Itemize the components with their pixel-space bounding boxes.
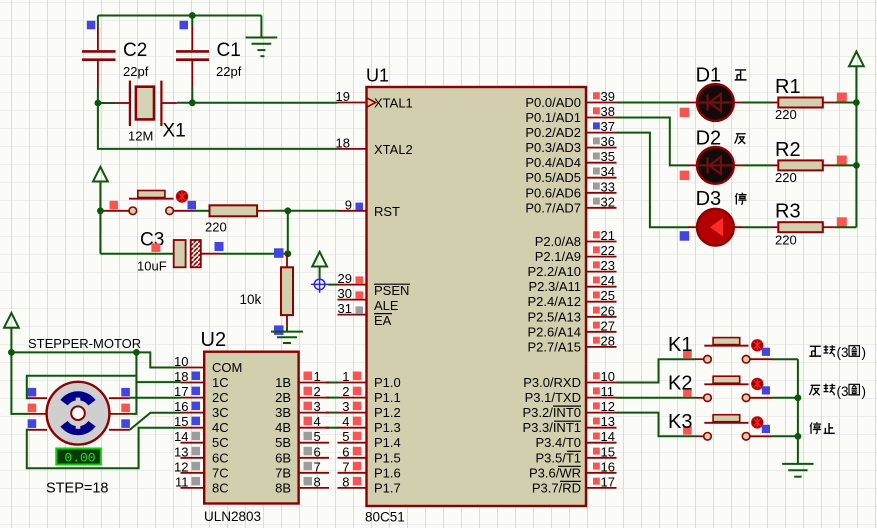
svg-text:0.00: 0.00 — [64, 450, 95, 465]
svg-text:2C: 2C — [212, 390, 229, 405]
U1 pin 35 (P0.4/AD4) — [525, 149, 616, 170]
U1 pin 13 (P3.3/INT1) — [522, 414, 616, 435]
svg-text:P2.4/A12: P2.4/A12 — [528, 294, 582, 309]
wire U2 2B to U1 P1.1 — [326, 397, 339, 399]
svg-text:ULN2803: ULN2803 — [204, 509, 261, 524]
node: junction dot R2/bus — [853, 162, 860, 169]
svg-text:P1.5: P1.5 — [374, 450, 401, 465]
wire top ground drop — [260, 16, 262, 37]
U1 pin 10 (P3.0/RXD) — [523, 369, 616, 390]
node: junction dot C1 top — [189, 12, 196, 19]
node: junction dot K2/bus — [795, 394, 802, 401]
U1 pin 34 (P0.5/AD5) — [525, 164, 616, 185]
U1 pin 14 (P3.4/T0) — [535, 429, 616, 450]
svg-text:32: 32 — [601, 194, 615, 209]
U1 pin 32 (P0.7/AD7) — [525, 194, 616, 215]
svg-text:6: 6 — [342, 444, 349, 459]
op-amp-like main MCU U1 body (80C51) — [365, 66, 586, 525]
node: junction dot crystal left — [95, 100, 102, 107]
svg-text:7: 7 — [314, 459, 321, 474]
U2 pin 6 (6B) — [275, 444, 329, 465]
wire U2 4B to U1 P1.3 — [326, 427, 339, 429]
svg-text:7B: 7B — [275, 465, 291, 480]
U1 pin 19 (XTAL1) — [336, 89, 413, 111]
wire R3 to bus corner — [835, 226, 857, 228]
svg-text:P2.2/A10: P2.2/A10 — [528, 264, 582, 279]
svg-text:XTAL1: XTAL1 — [374, 96, 413, 111]
push button K2 — [668, 373, 772, 402]
svg-text:2B: 2B — [275, 390, 291, 405]
wire R to RST pin — [271, 210, 338, 212]
wire C3 row — [100, 253, 173, 255]
svg-text:28: 28 — [601, 333, 615, 348]
svg-text:7C: 7C — [212, 465, 229, 480]
U1 pin 39 (P0.0/AD0) — [525, 89, 616, 110]
U1 pin 18 (XTAL2) — [336, 135, 413, 157]
wire vcc to left common lead — [11, 352, 28, 414]
power arrow (EA/PSEN) — [312, 252, 327, 278]
wire reset vertical to C3 — [99, 211, 101, 254]
U1 pin 7 (P1.6) — [338, 459, 401, 480]
svg-text:1C: 1C — [212, 375, 229, 390]
svg-text:P0.7/AD7: P0.7/AD7 — [525, 200, 581, 215]
svg-text:R1: R1 — [775, 76, 801, 98]
svg-text:P0.0/AD0: P0.0/AD0 — [525, 95, 581, 110]
U2 pin 7 (7B) — [275, 459, 329, 480]
U1 pin 4 (P1.3) — [338, 414, 401, 435]
svg-text:21: 21 — [601, 228, 615, 243]
U1 pin 30 (ALE) — [338, 286, 399, 313]
capacitor C1 — [176, 16, 242, 104]
svg-text:D2: D2 — [696, 128, 722, 150]
svg-text:10uF: 10uF — [137, 259, 167, 274]
node: junction dot C3 net — [284, 250, 291, 257]
capacitor C2 — [82, 16, 149, 104]
U2 pin 5 (5B) — [275, 429, 329, 450]
push button K1 — [668, 334, 772, 363]
svg-text:14: 14 — [174, 429, 188, 444]
U1 pin 16 (P3.6/WR) — [529, 459, 617, 480]
svg-text:P3.6/WR: P3.6/WR — [529, 465, 581, 480]
label D1 正 — [735, 70, 747, 80]
node: junction dot motor vcc mid — [133, 349, 140, 356]
U1 pin 6 (P1.5) — [338, 444, 401, 465]
svg-text:U1: U1 — [366, 66, 389, 86]
svg-text:P3.1/TXD: P3.1/TXD — [525, 390, 581, 405]
wire VCC bus right — [855, 103, 857, 228]
label 正转(3圈) — [809, 345, 866, 360]
svg-text:): ) — [862, 345, 867, 360]
svg-text:5: 5 — [342, 429, 349, 444]
svg-text:): ) — [862, 384, 867, 399]
svg-text:22: 22 — [601, 243, 615, 258]
svg-text:D1: D1 — [696, 65, 722, 87]
U1 pin 17 (P3.7/RD) — [532, 474, 617, 495]
svg-text:K3: K3 — [668, 411, 692, 433]
svg-text:8: 8 — [342, 474, 349, 489]
svg-text:2: 2 — [342, 384, 349, 399]
wire C3 to junction — [220, 253, 288, 255]
svg-text:ALE: ALE — [374, 298, 399, 313]
LED D2 — [680, 128, 743, 184]
svg-text:12M: 12M — [128, 129, 153, 144]
svg-text:U2: U2 — [201, 329, 227, 351]
svg-text:23: 23 — [601, 258, 615, 273]
svg-text:P1.6: P1.6 — [374, 465, 401, 480]
U1 pin 27 (P2.6/A14) — [528, 318, 617, 339]
svg-text:38: 38 — [601, 104, 615, 119]
motor speed display — [56, 449, 101, 466]
wire coil C diagonal (bottom-right lead to 3C) — [130, 413, 181, 430]
node: junction dot reset-left — [97, 207, 104, 214]
LED D3 (lit) — [680, 188, 743, 246]
power arrow (top right) — [849, 52, 864, 103]
label D3 停 — [735, 193, 746, 205]
U1 pin 2 (P1.1) — [338, 384, 401, 405]
reset push button — [110, 191, 197, 215]
svg-text:39: 39 — [601, 89, 615, 104]
U1 pin 31 (EA) — [338, 301, 393, 328]
wire coil B (top-right lead to 2C) — [130, 397, 181, 399]
svg-text:3: 3 — [314, 399, 321, 414]
U1 pin 8 (P1.7) — [338, 474, 401, 495]
U1 pin 25 (P2.4/A12) — [528, 288, 617, 309]
push button K3 — [668, 411, 772, 440]
svg-text:35: 35 — [601, 149, 615, 164]
svg-text:P1.2: P1.2 — [374, 405, 401, 420]
U2 pin 15 (4C) — [174, 414, 229, 435]
origin crosshair marker (blue) — [311, 276, 328, 293]
svg-text:3C: 3C — [212, 405, 229, 420]
wire button to R — [194, 210, 210, 212]
svg-text:R3: R3 — [775, 201, 801, 223]
wire 1C row — [136, 381, 180, 383]
svg-text:10: 10 — [601, 369, 615, 384]
svg-text:11: 11 — [601, 384, 615, 399]
svg-text:8: 8 — [314, 474, 321, 489]
resistor R1 — [772, 76, 847, 122]
svg-text:14: 14 — [601, 429, 615, 444]
U1 pin 5 (P1.4) — [338, 429, 401, 450]
svg-text:P3.3/INT1: P3.3/INT1 — [522, 420, 581, 435]
ground (K bus) — [782, 464, 813, 477]
resistor R? 220 (reset) — [205, 205, 271, 234]
svg-text:P2.1/A9: P2.1/A9 — [535, 249, 581, 264]
svg-text:3: 3 — [342, 399, 349, 414]
svg-text:1B: 1B — [275, 375, 291, 390]
U2 pin 3 (3B) — [275, 399, 329, 420]
svg-text:1: 1 — [314, 369, 321, 384]
svg-text:24: 24 — [601, 273, 615, 288]
U2 pin 11 (8C) — [175, 474, 229, 495]
svg-text:P2.0/A8: P2.0/A8 — [535, 234, 581, 249]
node: junction dot K3/bus — [795, 433, 802, 440]
U1 pin 33 (P0.6/AD6) — [525, 179, 616, 200]
U1 pin 3 (P1.2) — [338, 399, 401, 420]
U1 pin 26 (P2.5/A13) — [528, 303, 617, 324]
ground (below 10k) — [271, 327, 303, 343]
svg-text:4B: 4B — [275, 420, 291, 435]
svg-text:31: 31 — [338, 301, 352, 316]
svg-text:P2.3/A11: P2.3/A11 — [528, 279, 581, 294]
LED D1 — [680, 65, 743, 121]
node: junction dot RST — [284, 207, 291, 214]
svg-text:36: 36 — [601, 134, 615, 149]
blue square RST junction — [274, 248, 284, 257]
svg-text:P3.5/T1: P3.5/T1 — [535, 450, 581, 465]
svg-text:XTAL2: XTAL2 — [374, 142, 413, 157]
svg-text:30: 30 — [338, 286, 352, 301]
svg-text:2: 2 — [314, 384, 321, 399]
svg-text:10k: 10k — [240, 292, 262, 307]
svg-text:4: 4 — [314, 414, 321, 429]
svg-text:16: 16 — [601, 459, 615, 474]
svg-text:RST: RST — [374, 204, 400, 219]
wire coil D (bottom-left lead to 4C) — [27, 428, 181, 469]
resistor R2 — [772, 139, 847, 185]
svg-text:22pf: 22pf — [123, 64, 149, 79]
svg-text:COM: COM — [212, 360, 242, 375]
node: junction dot R1/bus — [853, 99, 860, 106]
svg-text:18: 18 — [336, 135, 350, 150]
svg-text:P1.4: P1.4 — [374, 435, 401, 450]
svg-text:7: 7 — [342, 459, 349, 474]
svg-text:9: 9 — [345, 197, 352, 212]
wire R1 to bus — [835, 102, 857, 104]
svg-text:5B: 5B — [275, 435, 291, 450]
wire VCC-top horizontal — [98, 15, 262, 17]
svg-text:8B: 8B — [275, 480, 291, 495]
svg-text:29: 29 — [338, 271, 352, 286]
svg-text:P3.0/RXD: P3.0/RXD — [523, 375, 581, 390]
svg-text:EA: EA — [374, 313, 392, 328]
svg-text:37: 37 — [601, 119, 615, 134]
U1 pin 37 (P0.2/AD2) — [525, 119, 616, 140]
svg-text:PSEN: PSEN — [374, 283, 409, 298]
svg-text:R2: R2 — [775, 139, 801, 161]
svg-text:1: 1 — [342, 369, 349, 384]
svg-text:X1: X1 — [163, 121, 186, 142]
U2 pin 2 (2B) — [275, 384, 329, 405]
capacitor C3 10uF — [137, 230, 224, 274]
svg-text:K2: K2 — [668, 373, 692, 395]
svg-text:P1.3: P1.3 — [374, 420, 401, 435]
U1 pin 11 (P3.1/TXD) — [525, 384, 617, 405]
svg-text:5C: 5C — [212, 435, 229, 450]
node: junction dot motor vcc left — [8, 349, 15, 356]
stepper motor body — [47, 382, 110, 445]
svg-text:P0.2/AD2: P0.2/AD2 — [525, 125, 581, 140]
svg-text:12: 12 — [601, 399, 615, 414]
wire to U2 COM — [136, 352, 180, 367]
svg-text:220: 220 — [775, 107, 797, 122]
svg-text:220: 220 — [775, 233, 797, 248]
wire K bus right — [797, 359, 799, 464]
label 反转(3圈) — [809, 384, 866, 399]
wire vcc mid to right common lead — [130, 352, 137, 414]
resistor R3 — [772, 201, 847, 248]
svg-text:15: 15 — [601, 444, 615, 459]
svg-text:STEPPER-MOTOR: STEPPER-MOTOR — [28, 336, 141, 351]
svg-text:12: 12 — [174, 459, 188, 474]
svg-text:22pf: 22pf — [216, 64, 242, 79]
U1 pin 29 (PSEN) — [338, 271, 411, 298]
svg-text:6B: 6B — [275, 450, 291, 465]
U1 pin 23 (P2.2/A10) — [528, 258, 617, 279]
U1 pin 36 (P0.3/AD3) — [525, 134, 616, 155]
svg-text:11: 11 — [175, 474, 189, 489]
svg-text:25: 25 — [601, 288, 615, 303]
wire P0.2 to D3 — [617, 133, 690, 228]
svg-text:(3: (3 — [837, 384, 849, 399]
svg-text:P0.3/AD3: P0.3/AD3 — [525, 140, 581, 155]
wire RST junction down — [287, 211, 289, 254]
wire XTAL1 net — [177, 102, 338, 104]
wire K1 to bus — [772, 358, 798, 360]
wire crosshair to PSEN — [328, 284, 337, 286]
wire coil A (top-left lead to 1C) — [27, 376, 137, 398]
wire U2 1B to U1 P1.0 — [326, 382, 339, 384]
svg-text:P3.4/T0: P3.4/T0 — [535, 435, 581, 450]
wire P0.0 to D1 — [617, 102, 690, 104]
svg-text:19: 19 — [336, 89, 350, 104]
svg-text:P2.5/A13: P2.5/A13 — [528, 309, 582, 324]
svg-text:13: 13 — [601, 414, 615, 429]
U1 pin 28 (P2.7/A15) — [528, 333, 617, 354]
svg-text:80C51: 80C51 — [365, 510, 405, 525]
svg-text:26: 26 — [601, 303, 615, 318]
svg-text:(3: (3 — [837, 345, 849, 360]
svg-text:3B: 3B — [275, 405, 291, 420]
U1 pin 9 (RST) — [338, 197, 401, 219]
node: junction dot crystal right — [189, 99, 196, 106]
U1 pin 24 (P2.3/A11) — [528, 273, 616, 294]
svg-text:27: 27 — [601, 318, 615, 333]
svg-text:6: 6 — [314, 444, 321, 459]
U2 pin 10 (COM) — [174, 354, 242, 375]
svg-text:33: 33 — [601, 179, 615, 194]
svg-text:13: 13 — [174, 444, 188, 459]
crystal X1 — [115, 81, 186, 144]
XTAL1 clock input triangle — [367, 98, 376, 108]
label 停止 — [810, 422, 835, 434]
svg-text:6C: 6C — [212, 450, 229, 465]
svg-text:P0.4/AD4: P0.4/AD4 — [525, 155, 581, 170]
svg-text:P0.1/AD1: P0.1/AD1 — [525, 110, 581, 125]
svg-text:K1: K1 — [668, 334, 692, 356]
svg-text:P3.2/INT0: P3.2/INT0 — [522, 405, 581, 420]
stepper motor leads — [29, 398, 130, 430]
svg-text:4C: 4C — [212, 420, 229, 435]
U1 pin 38 (P0.1/AD1) — [525, 104, 616, 125]
wire D3-R3 — [743, 226, 772, 228]
U2 pin 14 (5C) — [174, 429, 229, 450]
svg-text:P2.7/A15: P2.7/A15 — [528, 339, 582, 354]
svg-text:C1: C1 — [217, 40, 241, 61]
U2 pin 4 (4B) — [275, 414, 329, 435]
U2 pin 18 (1C) — [174, 369, 229, 390]
U1 pin 15 (P3.5/T1) — [535, 444, 616, 465]
U1 pin 21 (P2.0/A8) — [535, 228, 617, 249]
U2 pin 8 (8B) — [275, 474, 329, 495]
U2 pin 12 (7C) — [174, 459, 229, 480]
motor state squares — [28, 388, 130, 428]
wire U2 3B to U1 P1.2 — [326, 412, 339, 414]
wire D1-R1 — [743, 102, 772, 104]
svg-text:5: 5 — [314, 429, 321, 444]
wire P3.0 to K1 — [617, 359, 696, 382]
svg-text:P2.6/A14: P2.6/A14 — [528, 324, 582, 339]
U1 pin 1 (P1.0) — [338, 369, 401, 390]
svg-text:220: 220 — [205, 220, 227, 235]
svg-text:4: 4 — [342, 414, 349, 429]
U2 pin 13 (6C) — [174, 444, 229, 465]
svg-text:STEP=18: STEP=18 — [46, 481, 108, 497]
power arrow (reset) — [93, 167, 108, 211]
svg-text:C2: C2 — [123, 40, 147, 61]
wire P3.1 to K2 — [617, 397, 696, 399]
svg-text:34: 34 — [601, 164, 615, 179]
wire RST row left — [100, 210, 129, 212]
svg-text:17: 17 — [601, 474, 615, 489]
wire XTAL2 net — [98, 103, 338, 149]
wire K2 to bus — [772, 397, 798, 399]
wire R2 to bus — [835, 164, 857, 166]
U1 pin 12 (P3.2/INT0) — [522, 399, 616, 420]
wire P0.1 to D2 — [617, 118, 690, 166]
wire P3.2 to K3 — [617, 413, 696, 437]
driver U2 body (ULN2803) — [201, 329, 299, 524]
U1 pin 22 (P2.1/A9) — [535, 243, 617, 264]
svg-text:P0.6/AD6: P0.6/AD6 — [525, 185, 581, 200]
wire K3 to bus — [772, 435, 798, 437]
svg-text:D3: D3 — [696, 188, 722, 210]
svg-text:P0.5/AD5: P0.5/AD5 — [525, 170, 581, 185]
svg-text:P1.0: P1.0 — [374, 375, 401, 390]
ground (top right of C1) — [246, 38, 278, 57]
svg-text:P1.1: P1.1 — [374, 390, 401, 405]
wire VCC motor horizontal — [11, 351, 136, 353]
U2 pin 1 (1B) — [275, 369, 329, 390]
label D2 反 — [735, 134, 746, 144]
resistor 10k — [240, 254, 294, 335]
svg-text:220: 220 — [775, 170, 797, 185]
svg-text:8C: 8C — [212, 480, 229, 495]
U2 pin 16 (3C) — [174, 399, 229, 420]
svg-text:P3.7/RD: P3.7/RD — [532, 480, 581, 495]
U2 pin 17 (2C) — [174, 384, 229, 405]
svg-text:P1.7: P1.7 — [374, 480, 401, 495]
power arrow (motor) — [4, 313, 19, 352]
wire D2-R2 — [743, 164, 772, 166]
